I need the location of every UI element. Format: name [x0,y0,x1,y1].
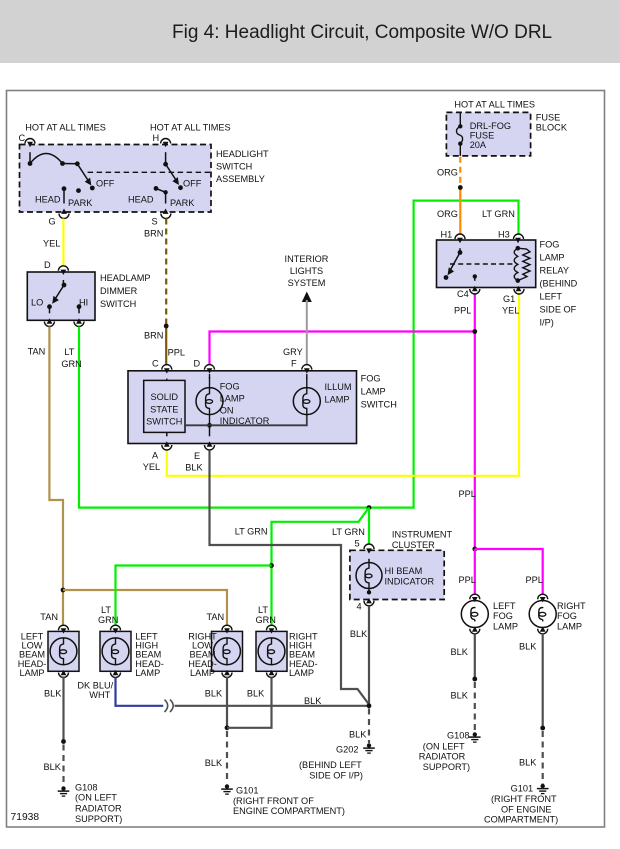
junction PPL at (474.8,331.5) [472,329,477,334]
svg-text:SOLID: SOLID [151,392,179,402]
svg-text:Fig 4: Headlight Circuit, Comp: Fig 4: Headlight Circuit, Composite W/O … [172,22,552,43]
headlamp dimmer switch box [27,272,95,320]
svg-text:PPL: PPL [526,575,543,585]
svg-text:HI BEAM: HI BEAM [385,566,423,576]
arrow E out of fog switch [209,425,211,436]
svg-text:LAMP: LAMP [289,668,314,678]
svg-text:(RIGHT FRONT: (RIGHT FRONT [491,794,557,804]
relay coil link (dashed) [450,263,515,265]
label FUSE BLOCK [536,112,568,132]
svg-text:G101: G101 [236,786,258,796]
junction BRN at (166,326) [164,324,169,329]
svg-text:PPL: PPL [168,348,185,358]
svg-text:G: G [49,217,56,227]
svg-text:(BEHIND: (BEHIND [540,279,578,289]
svg-text:DRL-FOG: DRL-FOG [470,121,511,131]
svg-text:ASSEMBLY: ASSEMBLY [216,174,265,184]
svg-text:BLK: BLK [247,689,265,699]
svg-text:COMPARTMENT): COMPARTMENT) [484,815,558,825]
fog lamp relay box [437,240,536,288]
fuse block box [446,112,530,155]
svg-text:LAMP: LAMP [493,621,518,631]
svg-text:DIMMER: DIMMER [100,286,138,296]
wire BLK dashed to G202 [368,709,370,744]
svg-text:RADIATOR: RADIATOR [419,752,466,762]
contact LO [31,298,52,324]
label HI BEAM INDICATOR [385,566,435,586]
svg-text:SIDE OF I/P): SIDE OF I/P) [309,770,363,780]
svg-text:SWITCH: SWITCH [146,417,182,427]
junction BLK at (227,727.8) [225,725,230,730]
right high beam headlamp [256,625,287,677]
svg-text:OFF: OFF [96,179,115,189]
label LEFT HIGH BEAM HEAD- LAMP [135,631,164,678]
relay coil and resistor [514,238,530,291]
terminal D (fog switch) [194,359,215,370]
arrow C into solid state switch [166,379,168,381]
svg-text:LEFT: LEFT [493,601,516,611]
wire TAN branch to right low beam [63,590,227,626]
svg-text:PARK: PARK [68,198,93,208]
terminal H3 [498,230,524,240]
junction ORG at (460.3,187.5) [458,185,463,190]
fog lamp switch box [128,371,357,444]
svg-text:SUPPORT): SUPPORT) [423,762,470,772]
svg-text:BLK: BLK [451,691,469,701]
instrument cluster box [350,550,444,599]
pin 4 [357,601,375,612]
svg-text:ENGINE COMPARTMENT): ENGINE COMPARTMENT) [233,806,345,816]
svg-text:G1: G1 [503,294,515,304]
label FOG LAMP RELAY (BEHIND LEFT SIDE OF I/P) [540,240,578,328]
svg-text:LAMP: LAMP [557,621,582,631]
wire BLK (right low beam to G101) [226,677,228,784]
label LEFT FOG LAMP [493,601,518,631]
svg-text:WHT: WHT [89,690,110,700]
svg-text:LAMP: LAMP [190,668,215,678]
right fog lamp [529,594,556,634]
svg-text:LO: LO [31,298,43,308]
contact HEAD (left) [35,186,66,204]
dimmer switch arm [52,270,66,304]
svg-text:BRN: BRN [144,331,163,341]
label LT GRN (right high beam) [256,605,276,625]
relay switch contact [444,238,463,280]
left low beam headlamp [48,625,79,677]
inline connector [165,700,174,712]
wire BLK (left low beam to G108) [62,677,64,785]
label LT GRN (left high beam) [98,605,118,625]
label G108 (ON LEFT RADIATOR SUPPORT) right [419,731,470,773]
svg-text:LEFT: LEFT [540,292,563,302]
ground G108 (left) [58,786,70,796]
svg-text:LT GRN: LT GRN [235,527,268,537]
illumination lamp [293,368,320,414]
arrow A from solid state switch [166,432,168,436]
svg-text:FOG: FOG [361,374,381,384]
wire PPL (fog switch D to relay C4 and fog lamps) [210,295,475,550]
svg-text:D: D [194,359,201,369]
junction BLK at (63.5,741.5) [61,739,66,744]
wire ORG (fuse to relay H1) [459,157,461,235]
svg-text:BLK: BLK [44,689,62,699]
svg-text:G202: G202 [336,745,358,755]
svg-text:RELAY: RELAY [540,266,569,276]
svg-text:LAMP: LAMP [325,394,350,404]
inner link line [185,415,307,426]
fuse DRL-FOG 20A [456,113,462,156]
svg-text:BLK: BLK [350,629,368,639]
svg-text:H1: H1 [441,230,453,240]
fog lamp on indicator lamp [196,368,223,425]
svg-text:G108: G108 [447,731,469,741]
title bar [0,0,620,63]
svg-text:F: F [291,359,297,369]
wire BLK (fog switch E to ground G202) [210,450,370,704]
terminal H1 [441,230,466,240]
wire HEAD to terminal G (arrow) [63,189,65,204]
svg-text:GRN: GRN [256,615,276,625]
svg-text:(ON LEFT: (ON LEFT [75,793,117,803]
label G202 (BEHIND LEFT SIDE OF I/P) [299,745,363,781]
svg-text:BLK: BLK [185,463,203,473]
label FOG LAMP SWITCH [361,374,397,410]
svg-text:PARK: PARK [170,198,195,208]
svg-text:BLK: BLK [205,689,223,699]
svg-text:S: S [152,217,158,227]
wire LT GRN (dimmer HI to fog lamp relay H3) [79,201,519,508]
label DRL-FOG FUSE 20A [470,121,511,150]
junction BLK at (542.7,728) [540,726,545,731]
wire LT GRN branch to left high beam [116,566,272,627]
svg-text:E: E [194,451,200,461]
svg-text:LAMP: LAMP [135,668,160,678]
right low beam headlamp [212,625,243,677]
headlight switch assembly box [20,145,212,213]
svg-text:4: 4 [357,602,362,612]
svg-text:INDICATOR: INDICATOR [385,576,435,586]
svg-text:LAMP: LAMP [361,387,386,397]
terminal E (fog switch) [194,445,215,461]
svg-text:BLK: BLK [349,730,367,740]
switch contact arm H (right section) [163,142,179,185]
svg-text:LT GRN: LT GRN [332,527,365,537]
svg-text:HEADLAMP: HEADLAMP [100,273,151,283]
svg-text:LIGHTS: LIGHTS [290,266,323,276]
svg-text:LT: LT [101,605,111,615]
wire BLK (connector to ground junction) [175,705,370,707]
svg-text:FOG: FOG [493,611,513,621]
svg-text:G101: G101 [511,784,533,794]
contact HI [76,298,88,324]
terminal HI (bottom) [74,322,84,327]
label RIGHT FOG LAMP [557,601,586,631]
terminal LO (bottom) [44,322,54,327]
relay contact to C4 (arrow) [472,274,478,291]
left fog lamp [461,594,488,634]
svg-text:H: H [153,133,160,143]
contact PARK (left) [68,188,93,208]
svg-text:(ON LEFT: (ON LEFT [423,741,465,751]
label LT GRN (under dimmer) [61,347,81,369]
svg-text:RIGHT: RIGHT [557,601,586,611]
ground G101 (right) [537,784,549,794]
label G101 (RIGHT FRONT OF ENGINE COMPARTMENT) right [484,784,558,825]
junction PPL at (474.8,549) [472,547,477,552]
terminal C (fog switch) [152,359,172,370]
svg-text:GRN: GRN [98,615,118,625]
terminal S [152,214,171,227]
left high beam headlamp [100,625,131,677]
svg-text:LAMP: LAMP [220,393,245,403]
svg-text:FOG: FOG [220,381,240,391]
svg-text:INSTRUMENT: INSTRUMENT [392,530,453,540]
wire TAN (dimmer LO to low beam headlamps) [49,327,63,627]
wire YEL (G to dimmer D) [62,219,64,266]
svg-text:LAMP: LAMP [19,668,44,678]
inner dashed link line [88,171,210,173]
svg-text:BLK: BLK [205,758,223,768]
svg-text:SYSTEM: SYSTEM [288,278,326,288]
svg-text:HEADLIGHT: HEADLIGHT [216,149,269,159]
svg-text:C4: C4 [457,289,469,299]
wire BLK (left fog lamp to G108) [474,633,476,730]
terminal D (dimmer) [44,260,68,271]
wire BLK (right high beam to junction) [227,677,272,728]
wire BRN (switch S to fog switch C) [165,219,167,366]
svg-text:5: 5 [355,539,360,549]
terminal G [49,214,70,227]
wire HEAD to terminal S (arrow) [156,188,169,214]
ground G202 [363,743,375,753]
terminal C [19,133,36,144]
svg-text:(RIGHT FRONT OF: (RIGHT FRONT OF [233,796,314,806]
ground G108 (right) [469,732,481,742]
svg-text:(BEHIND LEFT: (BEHIND LEFT [299,760,362,770]
label G108 (ON LEFT RADIATOR SUPPORT) [75,783,122,825]
svg-text:LAMP: LAMP [540,253,565,263]
label RIGHT LOW BEAM HEAD- LAMP [188,631,217,678]
svg-text:PPL: PPL [459,489,476,499]
svg-text:INTERIOR: INTERIOR [285,254,329,264]
solid state switch box [144,380,185,432]
svg-text:PPL: PPL [459,575,476,585]
svg-text:YEL: YEL [143,462,160,472]
svg-text:20A: 20A [470,140,487,150]
svg-text:HEAD: HEAD [35,195,61,205]
label LEFT LOW BEAM HEAD- LAMP [18,631,47,678]
wire GRY (fog switch F to interior lights) [306,300,308,365]
svg-text:OFF: OFF [183,179,202,189]
svg-text:LT: LT [64,347,74,357]
svg-text:BLOCK: BLOCK [536,123,568,133]
svg-text:TAN: TAN [40,612,58,622]
junction LT GRN at (369,508) [367,505,372,510]
svg-text:STATE: STATE [150,404,178,414]
wire LT GRN branch to high beam headlamps [272,508,370,626]
junction BLK at (474.8,679) [472,677,477,682]
ground G101 (center) [221,784,233,794]
svg-text:BLK: BLK [44,762,62,772]
svg-text:BLK: BLK [304,696,322,706]
svg-text:SWITCH: SWITCH [100,299,136,309]
svg-text:GRN: GRN [61,359,81,369]
svg-text:I/P): I/P) [540,318,554,328]
svg-text:SWITCH: SWITCH [216,162,252,172]
label DK BLU/ WHT [77,681,113,701]
label HEADLAMP DIMMER SWITCH [100,273,151,309]
hi beam indicator lamp [356,548,382,603]
svg-text:HOT AT ALL TIMES: HOT AT ALL TIMES [150,123,231,133]
junction inside fog switch [207,423,212,428]
svg-text:BRN: BRN [144,229,163,239]
svg-text:A: A [152,451,159,461]
pin 5 [355,539,375,550]
svg-text:PPL: PPL [454,306,471,316]
svg-text:D: D [44,260,51,270]
wire DK BLU/WHT (left high beam ground lead) [116,677,164,706]
junction LT GRN at (271.5,565.5) [269,563,274,568]
terminal H [153,133,171,144]
svg-text:BLK: BLK [519,758,537,768]
svg-text:SIDE OF: SIDE OF [540,305,577,315]
svg-text:TAN: TAN [207,612,225,622]
svg-text:ORG: ORG [437,209,458,219]
svg-text:C: C [19,133,26,143]
svg-text:ORG: ORG [437,168,458,178]
svg-text:FUSE: FUSE [536,112,561,122]
svg-text:HOT AT ALL TIMES: HOT AT ALL TIMES [25,123,106,133]
svg-text:ON: ON [220,405,234,415]
wire BLK (cluster pin 4 to ground) [368,606,370,706]
svg-text:LT GRN: LT GRN [482,209,515,219]
label INSTRUMENT CLUSTER [392,530,453,550]
svg-text:HOT AT ALL TIMES: HOT AT ALL TIMES [454,100,535,110]
label ILLUM LAMP [325,382,352,404]
svg-text:FOG: FOG [557,611,577,621]
label INTERIOR LIGHTS SYSTEM [285,254,329,288]
wire PPL to left fog lamp [474,549,476,595]
svg-text:LT: LT [258,605,268,615]
svg-text:OF ENGINE: OF ENGINE [501,804,552,814]
svg-text:HEAD: HEAD [128,195,154,205]
svg-text:BLK: BLK [451,647,469,657]
junction BLK at (369,705.8) [367,703,372,708]
contact OFF (left) [90,179,115,191]
svg-text:SWITCH: SWITCH [361,400,397,410]
svg-text:H3: H3 [498,230,510,240]
svg-text:DK BLU/: DK BLU/ [77,681,113,691]
label HEADLIGHT SWITCH ASSEMBLY [216,149,269,184]
label FOG LAMP ON INDICATOR [220,381,270,426]
svg-text:TAN: TAN [28,347,46,357]
junction TAN at (63,590) [61,588,66,593]
label G101 (RIGHT FRONT OF ENGINE COMPARTMENT) [233,786,345,817]
wire PPL to right fog lamp [475,549,543,595]
svg-text:SUPPORT): SUPPORT) [75,814,122,824]
svg-text:BLK: BLK [519,642,537,652]
svg-text:YEL: YEL [43,239,60,249]
svg-text:YEL: YEL [502,306,519,316]
svg-text:ILLUM: ILLUM [325,382,352,392]
terminal A (fog switch) [152,445,172,461]
off-page arrow to interior lights system [302,292,312,303]
svg-text:C: C [152,359,159,369]
svg-text:FUSE: FUSE [470,131,495,141]
svg-text:RADIATOR: RADIATOR [75,804,122,814]
svg-text:GRY: GRY [283,347,303,357]
terminal F (fog switch) [291,359,312,370]
contact HEAD (right) [128,186,158,205]
switch contact arm C (left section) [27,142,91,186]
wire BLK (right fog lamp to G101) [542,633,544,784]
label RIGHT HIGH BEAM HEAD- LAMP [289,631,318,678]
svg-text:CLUSTER: CLUSTER [392,540,435,550]
terminal C4 [457,289,480,299]
svg-text:G108: G108 [75,783,97,793]
contact OFF (right) [178,179,202,191]
wire LT GRN branch to instrument cluster pin 5 [368,508,370,544]
svg-text:FOG: FOG [540,240,560,250]
svg-text:71938: 71938 [11,812,40,823]
wire YEL (relay G1 to fog switch A) [167,295,519,476]
terminal G1 [503,289,524,304]
